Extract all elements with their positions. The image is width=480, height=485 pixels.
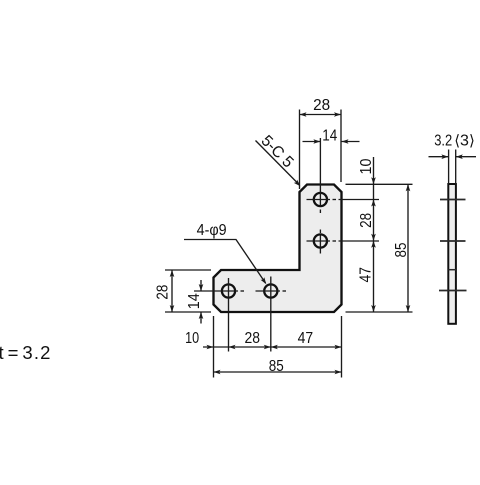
hole H2 (right arm, lower) [314,234,327,247]
dimension 14 (top, hole offset) [303,141,321,143]
extension line, vertical arm left edge (top dim 28) [299,110,301,190]
side view plate section [448,184,456,324]
svg-text:28: 28 [155,285,172,300]
side view hole center line tick (row 3) [439,290,467,292]
svg-text:3.2: 3.2 [434,133,452,150]
side view horizontal arm edge line [448,269,456,271]
dimension column right: 10 / 28 / 47 [373,157,375,312]
svg-text:t = 3.2: t = 3.2 [0,342,52,363]
svg-text:10: 10 [185,330,199,347]
svg-text:85: 85 [269,358,284,375]
svg-text:14: 14 [186,293,203,309]
side view hole center line tick (row 2) [440,240,466,242]
dimension row bottom: 10 / 28 / 47 [203,346,342,348]
hole H3 (bottom arm, left) [222,284,235,297]
extension line, plate bottom edge to left dims [165,311,211,313]
svg-text:4-φ9: 4-φ9 [197,222,227,239]
hole H4 center lines [256,290,281,292]
svg-text:47: 47 [357,267,374,283]
extension line, plate right edge top (top dims) [340,110,342,183]
hole H2 center lines [319,230,321,234]
hole H4 (bottom arm, right) [264,284,277,297]
extension lines, side view thickness dim [448,150,450,185]
hole H3 center lines [194,290,238,292]
leader 5-C 5 (chamfer note) [256,141,300,185]
svg-text:28: 28 [358,213,375,228]
extension line, plate right edge to bottom dims [341,316,343,378]
extension line, plate bottom edge to right dims [346,311,413,313]
leader 4-phi9 (hole note) [184,240,266,284]
plate front view (L-shaped bracket outline) [214,185,342,313]
svg-text:⟨3⟩: ⟨3⟩ [454,132,475,149]
side view hole center line tick (row 1) [440,199,466,201]
svg-text:85: 85 [393,242,410,257]
svg-text:10: 10 [358,158,375,174]
dimension 85 (right, overall height) [407,184,409,312]
dimension 85 (bottom, overall width) [214,371,342,373]
dimension 28 (left, arm width) [171,270,173,312]
svg-text:28: 28 [245,330,261,347]
dimension 3.2 (side view thickness) [429,156,449,158]
extension line, horizontal arm top edge to left dims [165,269,211,271]
dimension 28 (top, arm width) [300,114,342,116]
extension line, plate top edge to right dims [346,183,413,185]
hole H1 (top right arm, upper) [314,193,327,206]
hole H1 center lines [319,138,321,207]
svg-text:47: 47 [298,330,314,347]
svg-text:28: 28 [313,97,330,114]
dimension 14 (left, hole offset) [200,280,202,291]
svg-text:14: 14 [322,128,337,145]
extension line, plate left edge to bottom dims [213,316,215,378]
